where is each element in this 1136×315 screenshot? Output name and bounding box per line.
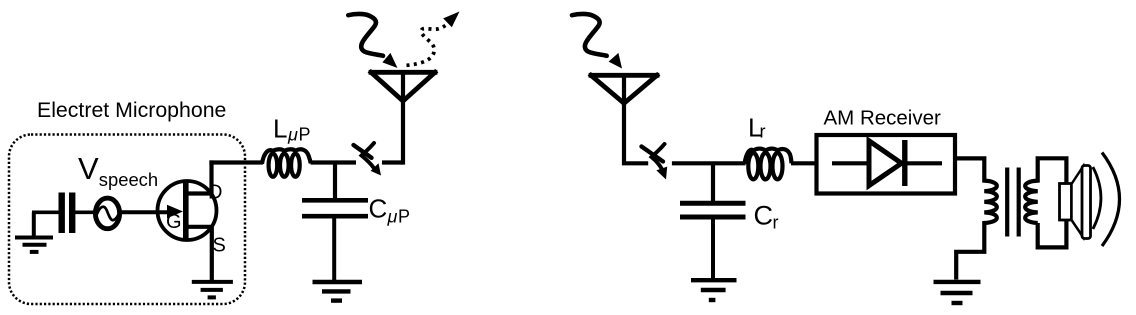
wire source down: [210, 225, 214, 281]
source V_speech (sine): [95, 198, 119, 229]
svg-text:r: r: [760, 122, 766, 142]
transistor Q1 drain bar: [185, 191, 212, 195]
svg-text:AM Receiver: AM Receiver: [824, 106, 942, 129]
ground (transistor source): [192, 282, 233, 298]
enclosure dotted box (microphone): [9, 135, 245, 305]
sound wave arcs: [1093, 167, 1101, 229]
ground (C_r): [691, 280, 737, 300]
capacitor C_r: [680, 203, 746, 217]
capacitor C_uP: [302, 200, 368, 216]
svg-text:Electret Microphone: Electret Microphone: [37, 98, 226, 122]
transistor Q1 gate bar: [183, 182, 189, 239]
svg-text:P: P: [398, 207, 410, 227]
antenna ANT2: [591, 75, 657, 103]
AM receiver box U1: [817, 135, 956, 194]
wire ground to capacitor: [32, 211, 59, 215]
svg-text:D: D: [208, 182, 222, 204]
transformer T1 primary: [955, 158, 997, 279]
svg-text:G: G: [166, 211, 182, 233]
speaker SP1 rim: [1082, 166, 1091, 239]
svg-text:C: C: [754, 201, 774, 231]
RF wave arrow (incoming, ANT2): [572, 14, 607, 56]
svg-text:P: P: [299, 125, 311, 145]
wire C_uP to ground: [332, 217, 336, 282]
svg-text:V: V: [78, 151, 99, 186]
antenna ANT1: [371, 72, 435, 101]
node junction to C_r: [711, 163, 715, 201]
wire antenna ANT2 feed: [624, 74, 648, 163]
diode D1 triangle: [869, 141, 902, 186]
wire drain up: [209, 160, 213, 195]
ground (microphone input): [15, 212, 53, 252]
transformer T1 core: [1007, 168, 1019, 237]
svg-text:μ: μ: [287, 125, 298, 145]
RF wave arrow (incoming, ANT1): [348, 14, 383, 56]
switch break X1: [354, 143, 375, 168]
wire source to gate with arrow: [121, 210, 171, 214]
svg-text:r: r: [773, 213, 779, 233]
transistor Q1 (JFET) circle: [158, 181, 217, 240]
speaker SP1 driver: [1060, 184, 1072, 221]
svg-text:μ: μ: [387, 207, 398, 227]
svg-text:C: C: [369, 194, 388, 224]
node junction to C_uP: [333, 163, 337, 199]
inductor L_r: [745, 149, 792, 180]
wire inductor to break: [311, 160, 357, 164]
speaker SP1 cone: [1072, 167, 1084, 238]
switch break X2: [642, 144, 665, 169]
diode D1 lead left: [832, 161, 870, 165]
wire inductor to receiver: [791, 161, 816, 165]
diode D1 lead right: [905, 161, 942, 165]
wire break to inductor L_r: [672, 161, 746, 165]
wire break to antenna: [382, 160, 403, 164]
inductor L_uP: [262, 149, 311, 177]
capacitor (electret element): [62, 193, 72, 234]
wire capacitor to source: [75, 211, 95, 215]
diode D1 cathode bar: [902, 140, 907, 186]
ground (C_uP): [313, 282, 363, 301]
svg-text:speech: speech: [99, 169, 158, 190]
transformer T1 secondary and speaker loop: [1025, 158, 1066, 247]
svg-text:S: S: [213, 235, 226, 257]
wire C_r to ground: [711, 217, 715, 279]
wire antenna feed: [401, 71, 405, 165]
transistor Q1 source bar: [185, 225, 212, 229]
wire drain to inductor: [209, 160, 263, 164]
svg-text:L: L: [273, 114, 287, 144]
ground (transformer): [934, 282, 981, 303]
RF wave arrow (radiated, dotted, ANT1): [407, 25, 447, 66]
